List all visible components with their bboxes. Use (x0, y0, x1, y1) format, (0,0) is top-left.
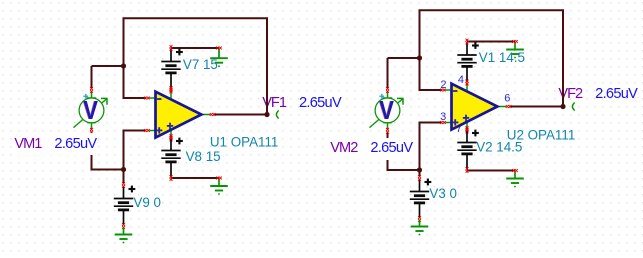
svg-text:2: 2 (440, 79, 446, 91)
svg-text:4: 4 (458, 74, 464, 86)
svg-text:V: V (379, 95, 394, 125)
svg-text:V8 15: V8 15 (186, 149, 221, 164)
svg-text:V: V (83, 95, 98, 125)
svg-text:V9 0: V9 0 (133, 195, 161, 210)
svg-text:6: 6 (504, 92, 510, 104)
svg-text:3: 3 (440, 111, 446, 123)
svg-text:V1 14.5: V1 14.5 (479, 50, 525, 65)
svg-text:V3 0: V3 0 (429, 186, 457, 201)
svg-text:U2 OPA111: U2 OPA111 (507, 127, 575, 142)
svg-text:U1 OPA111: U1 OPA111 (210, 134, 278, 149)
svg-text:V7 15: V7 15 (183, 57, 218, 72)
